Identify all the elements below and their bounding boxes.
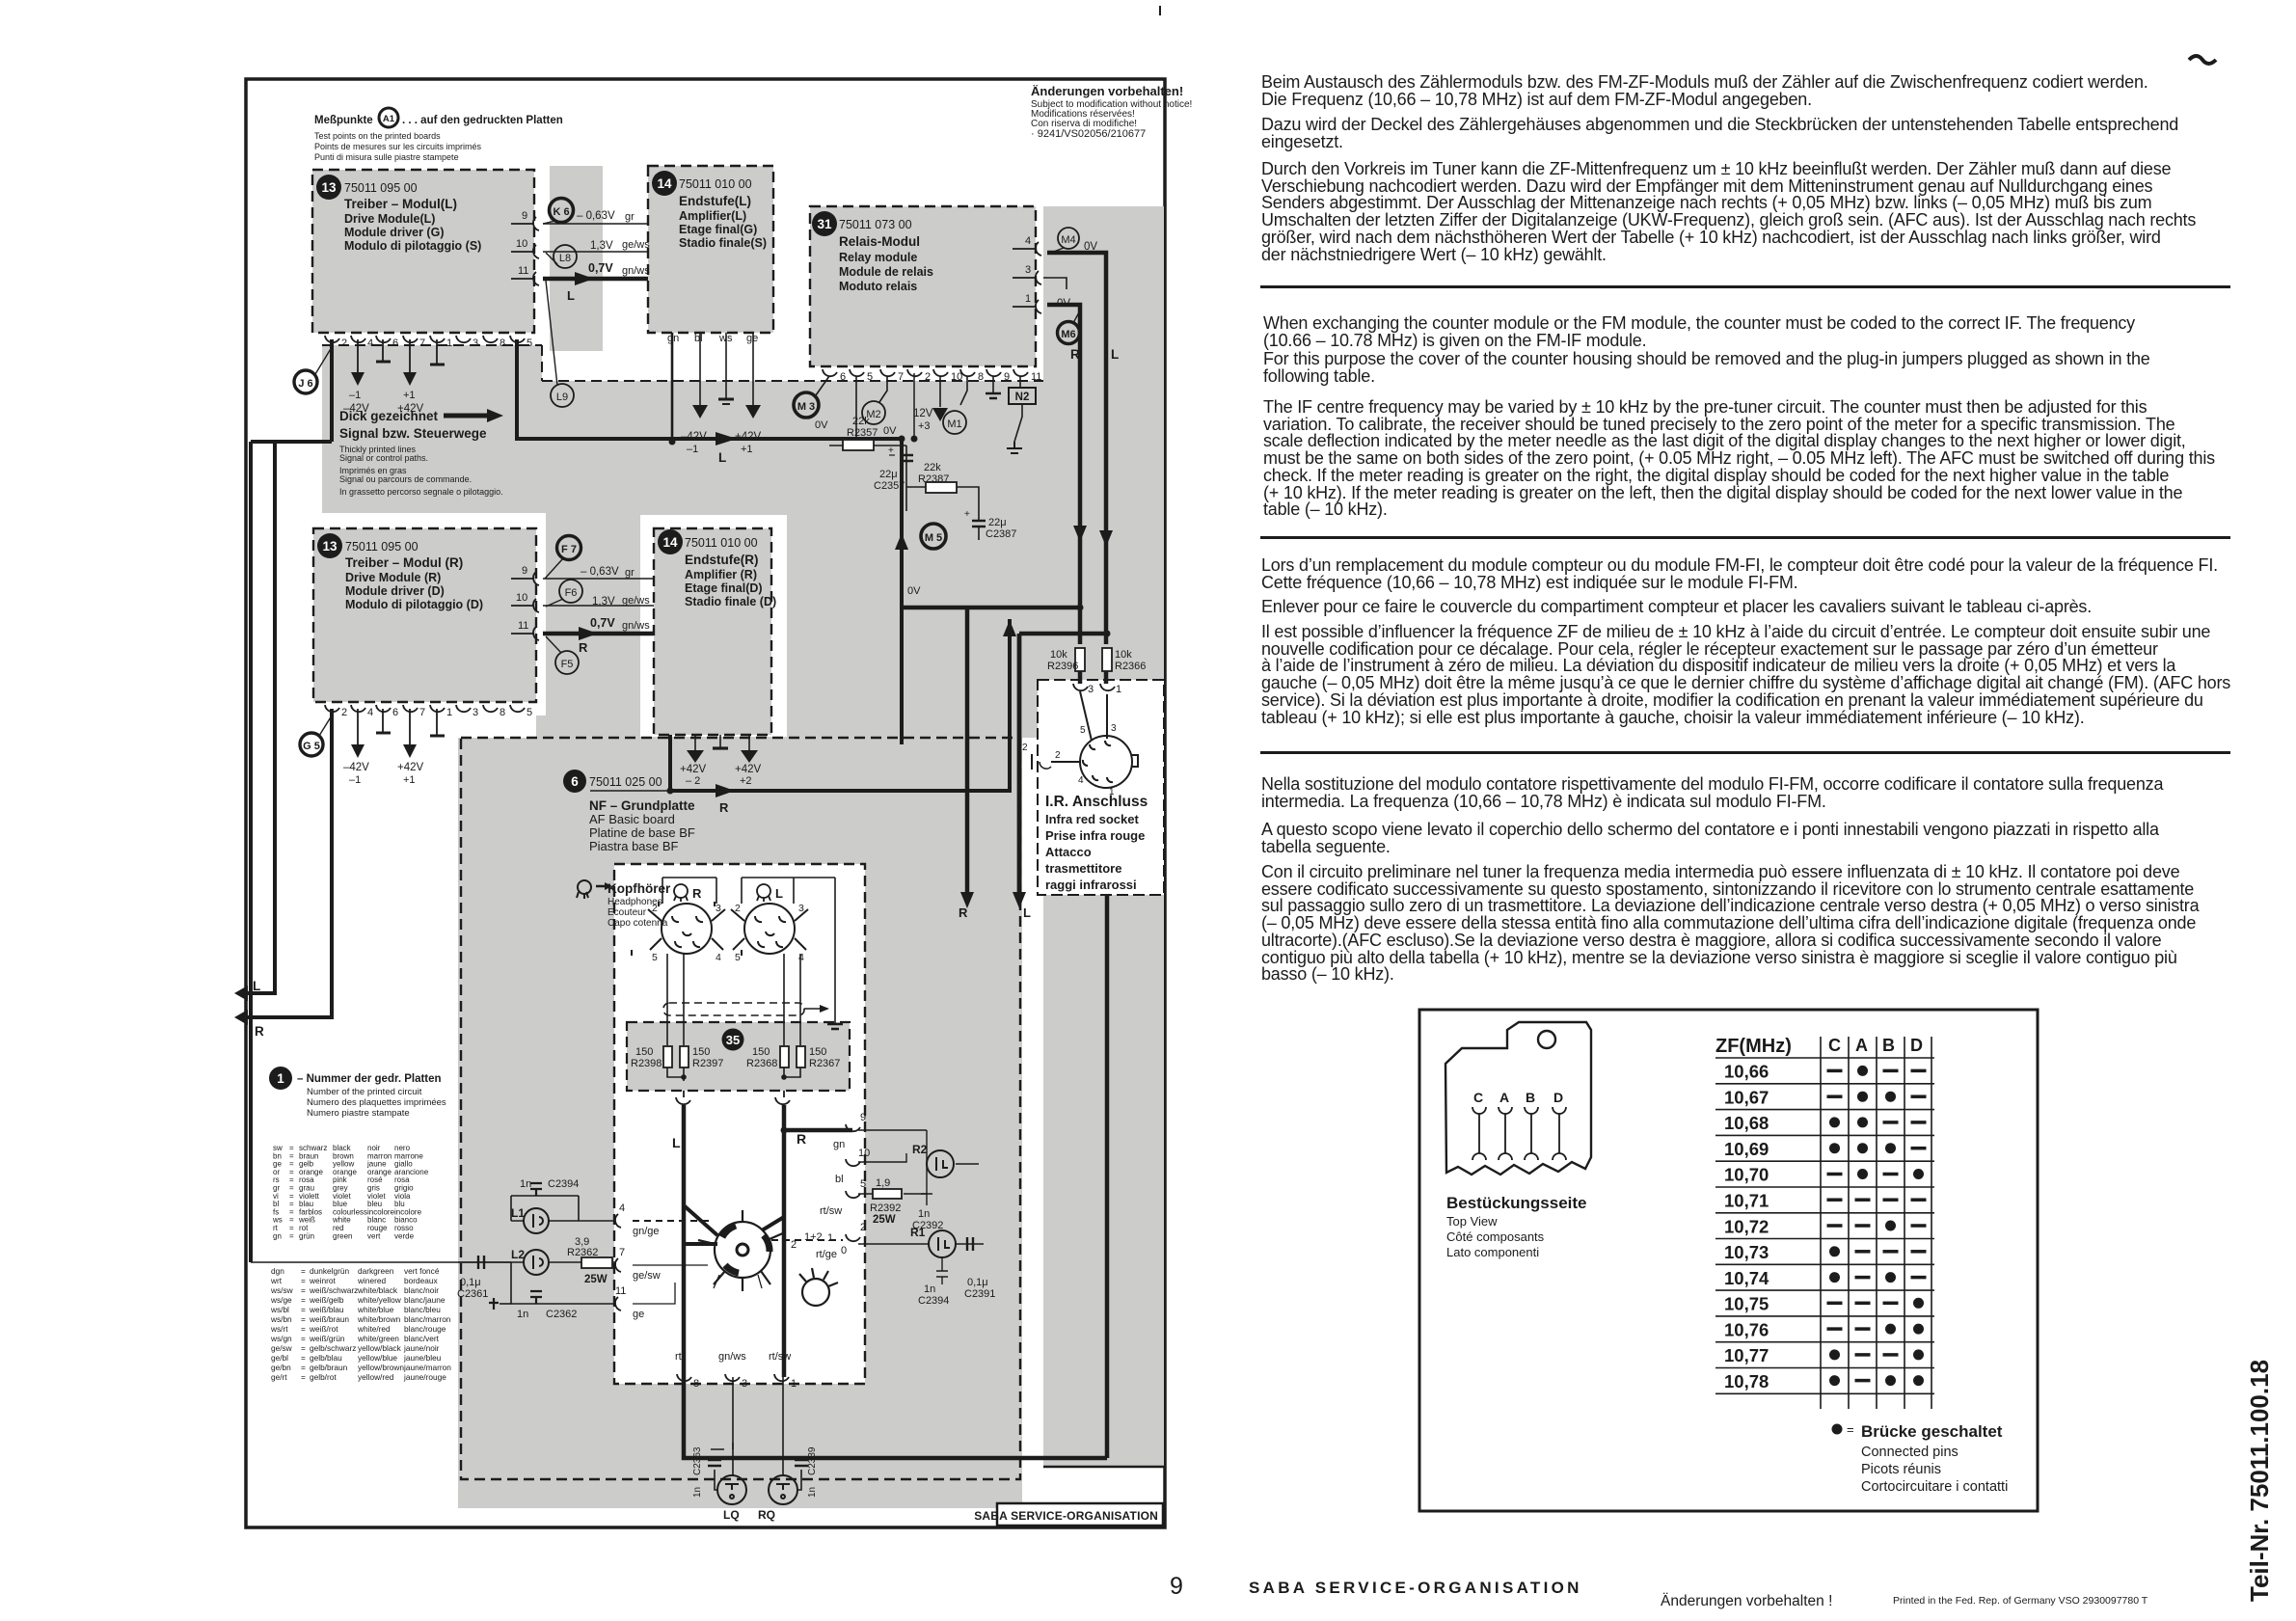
headphone jack R [662,904,712,954]
capacitor C2387 22u [972,521,986,527]
svg-text:Drive Module (R): Drive Module (R) [345,571,441,584]
svg-text:vert foncé: vert foncé [404,1266,440,1276]
svg-text:11: 11 [518,620,528,632]
pin rows 13L [325,336,525,372]
connector R2 [927,1150,954,1177]
NF right pins [846,1124,860,1241]
svg-text:11: 11 [518,265,528,277]
svg-text:1,3V: 1,3V [590,240,613,252]
svg-text:gn/ws: gn/ws [718,1351,746,1363]
svg-text:25W: 25W [873,1214,896,1226]
module 14 L disc [652,171,767,250]
svg-text:13: 13 [321,180,337,195]
svg-text:SABA SERVICE-ORGANISATION: SABA SERVICE-ORGANISATION [974,1509,1158,1523]
svg-text:ge/ws: ge/ws [622,239,650,251]
12V arrow under pin 10 [939,376,941,407]
svg-text:vert: vert [367,1231,381,1240]
svg-text:1: 1 [446,707,452,718]
resistor R2397 150 [680,1046,689,1067]
svg-text:SABA SERVICE-ORGANISATION: SABA SERVICE-ORGANISATION [1249,1579,1582,1597]
switch N2 [1009,388,1036,404]
svg-text:6: 6 [392,707,398,718]
svg-text:R: R [719,800,729,815]
svg-text:weiß/blau: weiß/blau [309,1305,344,1314]
rotary speaker selector switch [715,1222,770,1278]
svg-text:4: 4 [367,338,373,349]
svg-text:7: 7 [619,1247,625,1258]
svg-text:150: 150 [809,1046,826,1058]
test point L9 [551,384,574,407]
test point J6 [294,370,317,393]
svg-text:9: 9 [522,565,527,577]
svg-text:10k: 10k [1050,649,1067,661]
svg-text:5: 5 [867,371,873,383]
svg-text:D: D [1553,1090,1563,1105]
top small marks [1159,6,1161,15]
svg-text:10: 10 [858,1148,870,1159]
svg-text:Ecouteur: Ecouteur [608,907,647,918]
svg-text:75011 010 00: 75011 010 00 [679,177,752,191]
svg-text:=: = [301,1324,306,1334]
svg-text:ge/ws: ge/ws [622,595,650,607]
capacitor C2357 22u [900,455,913,461]
svg-text:L1: L1 [511,1206,525,1220]
page frame [246,79,1165,1527]
module 13 L disc [316,175,481,253]
jumper board pictogram outline [1445,1022,1591,1175]
svg-text:Test points on the printed boa: Test points on the printed boards [314,131,441,141]
resistor R2362 3,9 25W [581,1257,612,1268]
svg-text:–42V: –42V [343,403,369,415]
svg-text:10: 10 [516,592,527,604]
svg-text:bl: bl [694,333,703,344]
13R right pins [511,572,539,640]
svg-text:C: C [1473,1090,1483,1105]
svg-text:verde: verde [394,1231,415,1240]
svg-text:1: 1 [1109,787,1115,797]
svg-text:M2: M2 [866,409,880,420]
resistor R2392 1,9 25W [873,1189,902,1199]
svg-text:=: = [301,1295,306,1305]
svg-text:0,7V: 0,7V [588,261,613,275]
svg-text:blanc/bleu: blanc/bleu [404,1305,441,1314]
svg-text:150: 150 [635,1046,653,1058]
svg-text:R2368: R2368 [746,1058,777,1069]
svg-text:ws/ge: ws/ge [270,1295,292,1305]
endstufe L bottom pins [672,333,753,442]
svg-text:R2: R2 [912,1143,928,1156]
svg-text:gn/ws: gn/ws [622,620,650,632]
svg-text:0V: 0V [815,419,828,431]
svg-text:10,78: 10,78 [1724,1371,1769,1391]
mini headphone symbols [674,884,770,902]
svg-text:22k: 22k [924,462,941,473]
svg-text:Signal or control paths.: Signal or control paths. [339,453,428,463]
svg-text:– Nummer der gedr. Platten: – Nummer der gedr. Platten [297,1073,442,1085]
svg-text:3: 3 [742,1378,747,1390]
svg-text:L: L [672,1135,681,1150]
svg-text:10,69: 10,69 [1724,1139,1769,1159]
svg-text:+3: +3 [918,420,931,432]
module 6 NF-Grundplatte [563,770,695,853]
svg-text:2: 2 [1022,743,1028,753]
svg-text:trasmettitore: trasmettitore [1045,861,1121,876]
svg-text:C2387: C2387 [986,528,1016,540]
svg-text:– 0,63V: – 0,63V [577,210,615,222]
svg-text:Module de relais: Module de relais [839,265,933,279]
svg-text:1n: 1n [520,1178,531,1190]
svg-text:2: 2 [652,903,658,914]
svg-text:2: 2 [1055,750,1061,761]
svg-text:150: 150 [692,1046,710,1058]
svg-text:3: 3 [1088,684,1094,695]
svg-text:weiß/rot: weiß/rot [309,1324,338,1334]
module 14 Endstufe(L) label disc [652,171,677,196]
test point F5 [555,651,579,674]
svg-text:2: 2 [341,707,347,718]
svg-text:In grassetto percorso segnale: In grassetto percorso segnale o pilotagg… [339,487,503,497]
selector position indicator 2/1+2/1/0 [802,1279,829,1306]
module 13 Treiber-Modul(R) label disc [317,533,342,558]
svg-text:R2366: R2366 [1115,661,1146,672]
coil L1 [524,1208,549,1233]
svg-text:Etage final(G): Etage final(G) [679,223,757,236]
svg-text:Cortocircuitare i contatti: Cortocircuitare i contatti [1861,1479,2008,1495]
Dick gezeichnet block [339,409,503,497]
svg-text:=: = [301,1276,306,1285]
svg-text:1: 1 [791,1378,797,1390]
resistor R2396 10k [1075,648,1085,671]
wire from 13L pin2 [330,339,334,442]
svg-text:+: + [964,509,970,520]
svg-text:5: 5 [735,952,741,963]
svg-text:1,9: 1,9 [876,1177,890,1189]
bottom thick bus [684,1377,1107,1458]
svg-text:Drive Module(L): Drive Module(L) [344,212,435,226]
svg-text:C2363: C2363 [692,1446,703,1475]
module borders dashed [312,166,1036,1479]
svg-text:Brücke geschaltet: Brücke geschaltet [1861,1422,2003,1441]
module 31 Relais-Modul label disc [812,211,837,236]
svg-text:3: 3 [716,903,721,914]
svg-text:8: 8 [500,338,505,349]
svg-text:ws/gn: ws/gn [270,1334,292,1343]
svg-text:yellow/blue: yellow/blue [358,1353,397,1363]
rotary selector [698,1210,838,1306]
svg-text:Modulo di pilotaggio (S): Modulo di pilotaggio (S) [344,239,481,253]
svg-text:C2392: C2392 [912,1220,943,1231]
svg-text:3: 3 [1111,723,1117,734]
SABA box bottom [997,1503,1163,1526]
svg-text:+2: +2 [740,775,752,787]
headphone jack circles [632,902,808,956]
svg-text:gelb/braun: gelb/braun [310,1363,348,1372]
svg-text:white/blue: white/blue [357,1305,394,1314]
svg-text:Modulo di pilotaggio (D): Modulo di pilotaggio (D) [345,598,483,611]
svg-text:14: 14 [662,535,678,550]
RIGHT COLUMN TEXT [1261,74,2148,108]
I.R. DIN socket [1080,736,1132,788]
resistor R2368 150 [780,1046,789,1067]
svg-text:C2391: C2391 [964,1288,995,1300]
wire net A down left side [249,442,253,1262]
svg-text:blanc/rouge: blanc/rouge [404,1324,446,1334]
svg-text:=: = [289,1231,294,1240]
svg-text:–1: –1 [349,390,361,401]
svg-text:35: 35 [726,1033,740,1047]
svg-text:Etage final(D): Etage final(D) [685,581,763,595]
svg-text:8: 8 [978,371,984,383]
svg-text:R2396: R2396 [1047,661,1078,672]
svg-text:10,71: 10,71 [1724,1191,1769,1211]
svg-text:Amplifier (R): Amplifier (R) [685,568,757,581]
svg-text:6: 6 [571,774,579,789]
svg-text:0V: 0V [883,425,897,437]
resistor R2387 22k [926,482,957,493]
svg-text:75011 095 00: 75011 095 00 [345,540,419,554]
svg-text:R: R [255,1024,264,1039]
board 35 label disc [722,1029,744,1051]
svg-text:L: L [718,450,726,465]
svg-text:white/red: white/red [357,1324,391,1334]
svg-text:gr: gr [625,567,635,579]
svg-text:ws/sw: ws/sw [270,1285,294,1295]
svg-text:weiß/grün: weiß/grün [309,1334,345,1343]
svg-text:green: green [333,1231,352,1240]
svg-text:Module driver (G): Module driver (G) [344,226,444,239]
svg-text:4: 4 [798,952,804,963]
svg-text:R2397: R2397 [692,1058,723,1069]
svg-text:+42V: +42V [397,762,424,773]
svg-text:Bestückungsseite: Bestückungsseite [1446,1194,1587,1212]
headphone jack L [744,904,795,954]
svg-text:4: 4 [367,707,373,718]
svg-text:3: 3 [798,903,804,914]
svg-text:F5: F5 [561,659,574,670]
test point M6 [1058,322,1080,344]
svg-text:blanc/marron: blanc/marron [404,1314,451,1324]
svg-text:M4: M4 [1061,234,1075,246]
test point K6 [550,199,574,223]
svg-text:gn: gn [667,333,679,344]
svg-text:10,77: 10,77 [1724,1345,1769,1365]
svg-text:M1: M1 [947,419,961,430]
color legend block 1 [272,1144,429,1240]
wire down arrow R [965,608,970,892]
svg-text:gr: gr [625,211,635,223]
svg-text:AF Basic board: AF Basic board [589,812,675,826]
svg-text:=: = [301,1266,306,1276]
wire H to IR column [902,606,1080,610]
test point F6 [559,580,582,603]
svg-text:Platine de base BF: Platine de base BF [589,825,695,840]
svg-text:dgn: dgn [271,1266,284,1276]
svg-text:1n: 1n [807,1487,818,1498]
phono socket RQ [769,1475,797,1504]
legend [1832,1424,1843,1435]
svg-text:10,76: 10,76 [1724,1319,1769,1339]
svg-text:1,3V: 1,3V [592,596,615,608]
svg-text:5: 5 [652,952,658,963]
svg-text:Signal bzw. Steuerwege: Signal bzw. Steuerwege [339,426,487,441]
svg-text:8: 8 [500,707,505,718]
svg-text:=: = [301,1372,306,1382]
jumper pictogram [1445,1022,1591,1175]
svg-text:L8: L8 [559,253,571,264]
svg-text:L: L [775,886,783,901]
svg-text:10,66: 10,66 [1724,1062,1769,1082]
svg-text:9: 9 [1170,1573,1183,1600]
endstufe R bottom pins [695,735,749,750]
svg-text:3: 3 [473,707,478,718]
test point F7 [557,536,581,560]
svg-text:6: 6 [392,338,398,349]
svg-text:=: = [1847,1422,1854,1437]
svg-text:6: 6 [840,371,846,383]
svg-text:10k: 10k [1115,649,1132,661]
svg-text:Printed in the Fed. Rep. of Ge: Printed in the Fed. Rep. of Germany VSO … [1893,1595,2148,1607]
NF bottom pins [677,1374,789,1381]
svg-text:7: 7 [419,338,425,349]
svg-text:winered: winered [357,1276,386,1285]
svg-text:R2398: R2398 [631,1058,662,1069]
wire L output to arrow [238,442,275,993]
svg-text:Endstufe(L): Endstufe(L) [679,194,751,208]
svg-text:0V: 0V [907,585,921,597]
svg-text:jaune/rouge: jaune/rouge [403,1372,446,1382]
svg-text:yellow/brown: yellow/brown [358,1363,404,1372]
svg-text:C2394: C2394 [918,1295,949,1307]
svg-text:L: L [567,288,575,303]
svg-text:25W: 25W [584,1274,608,1285]
svg-text:ge/sw: ge/sw [633,1270,661,1282]
svg-text:J 6: J 6 [298,378,312,390]
svg-text:13: 13 [322,539,338,554]
svg-text:+1: +1 [741,444,753,455]
svg-text:4: 4 [1078,775,1084,786]
svg-text:C2361: C2361 [457,1288,488,1300]
svg-text:gelb/schwarz: gelb/schwarz [310,1343,356,1353]
svg-text:C2362: C2362 [546,1309,577,1320]
svg-text:Prise infra rouge: Prise infra rouge [1045,828,1145,843]
svg-text:10,75: 10,75 [1724,1294,1769,1314]
svg-text:Teil-Nr. 75011.100.18: Teil-Nr. 75011.100.18 [2245,1360,2274,1602]
svg-text:Treiber – Modul (R): Treiber – Modul (R) [345,555,463,570]
svg-text:bl: bl [835,1174,844,1185]
svg-text:ws/bn: ws/bn [270,1314,292,1324]
wire below IR box [1105,895,1110,1458]
module 31 relais [812,211,933,293]
svg-text:=: = [301,1314,306,1324]
svg-text:=: = [301,1363,306,1372]
svg-text:B: B [1526,1090,1535,1105]
svg-text:jaune/noir: jaune/noir [403,1343,440,1353]
svg-text:Points de mesures sur les circ: Points de mesures sur les circuits impri… [314,142,482,151]
LQ RQ sockets [717,1475,797,1504]
svg-text:Infra red socket: Infra red socket [1045,812,1139,826]
svg-text:3: 3 [1025,264,1031,276]
svg-text:7: 7 [419,707,425,718]
svg-text:Amplifier(L): Amplifier(L) [679,209,746,223]
svg-text:Punti di misura sulle piastre: Punti di misura sulle piastre stampete [314,152,459,162]
svg-text:10,73: 10,73 [1724,1242,1769,1262]
test point M4 [1058,228,1079,249]
svg-text:F6: F6 [565,587,578,599]
test point M1 [943,411,966,434]
thick L R wires in white area [684,1105,852,1377]
svg-text:1: 1 [827,1232,833,1244]
svg-text:Piastra base BF: Piastra base BF [589,839,679,853]
module 14 Endstufe(R) label disc [658,529,683,554]
svg-text:1: 1 [277,1071,284,1086]
svg-text:1n: 1n [517,1309,528,1320]
pins under 35 box [676,1091,790,1104]
R2 R1 connectors right [927,1150,956,1257]
svg-text:R: R [959,905,968,920]
svg-text:L: L [1023,905,1031,920]
svg-text:B: B [1882,1036,1895,1055]
svg-text:3: 3 [473,338,478,349]
svg-text:wrt: wrt [270,1276,283,1285]
svg-text:A: A [1499,1090,1509,1105]
dashed wires to selector [633,1220,714,1222]
svg-text:ge/bn: ge/bn [271,1363,291,1372]
svg-text:Numero des plaquettes imprimée: Numero des plaquettes imprimées [307,1097,446,1108]
Nummer der gedr. Platten [269,1067,446,1119]
svg-text:75011 073 00: 75011 073 00 [839,218,912,231]
svg-text:–42V: –42V [343,762,369,773]
white halo module 13R [297,513,546,716]
svg-text:L2: L2 [511,1248,525,1261]
svg-text:=: = [301,1334,306,1343]
svg-text:9: 9 [860,1112,866,1123]
svg-text:R2357: R2357 [847,427,878,439]
svg-text:1+2: 1+2 [804,1231,823,1243]
svg-text:weiß/braun: weiß/braun [309,1314,349,1324]
svg-text:Module driver (D): Module driver (D) [345,584,445,598]
svg-text:–1: –1 [349,774,361,786]
svg-text:C2394: C2394 [548,1178,579,1190]
svg-text:Connected pins: Connected pins [1861,1445,1958,1460]
svg-text:4: 4 [619,1202,625,1214]
svg-text:4: 4 [716,952,721,963]
svg-text:10,74: 10,74 [1724,1268,1769,1288]
svg-text:C: C [1828,1036,1841,1055]
test point L8 [554,245,577,268]
svg-text:Attacco: Attacco [1045,845,1092,859]
svg-text:10,68: 10,68 [1724,1113,1769,1133]
svg-text:grün: grün [299,1231,314,1240]
svg-text:5: 5 [1080,725,1086,736]
svg-text:11: 11 [1031,371,1041,383]
right column thick wires [902,253,1107,1458]
wires jacks to 35 box [662,878,843,1045]
thick stubs to selector [684,1205,784,1244]
svg-text:jaune/marron: jaune/marron [403,1363,451,1372]
svg-text:Änderungen vorbehalten !: Änderungen vorbehalten ! [1661,1593,1832,1609]
svg-text:ws: ws [718,333,733,344]
svg-text:75011 025 00: 75011 025 00 [589,775,662,789]
test point M5 [921,524,946,549]
svg-text:14: 14 [657,176,672,191]
connector R1 [929,1230,956,1257]
svg-text:Kopfhörer: Kopfhörer [608,881,671,896]
left long thick wires L/R [238,339,1010,1262]
svg-text:ge/rt: ge/rt [271,1372,287,1382]
svg-text:NF – Grundplatte: NF – Grundplatte [589,798,695,813]
svg-text:10,67: 10,67 [1724,1087,1769,1107]
svg-text:A: A [1855,1036,1868,1055]
